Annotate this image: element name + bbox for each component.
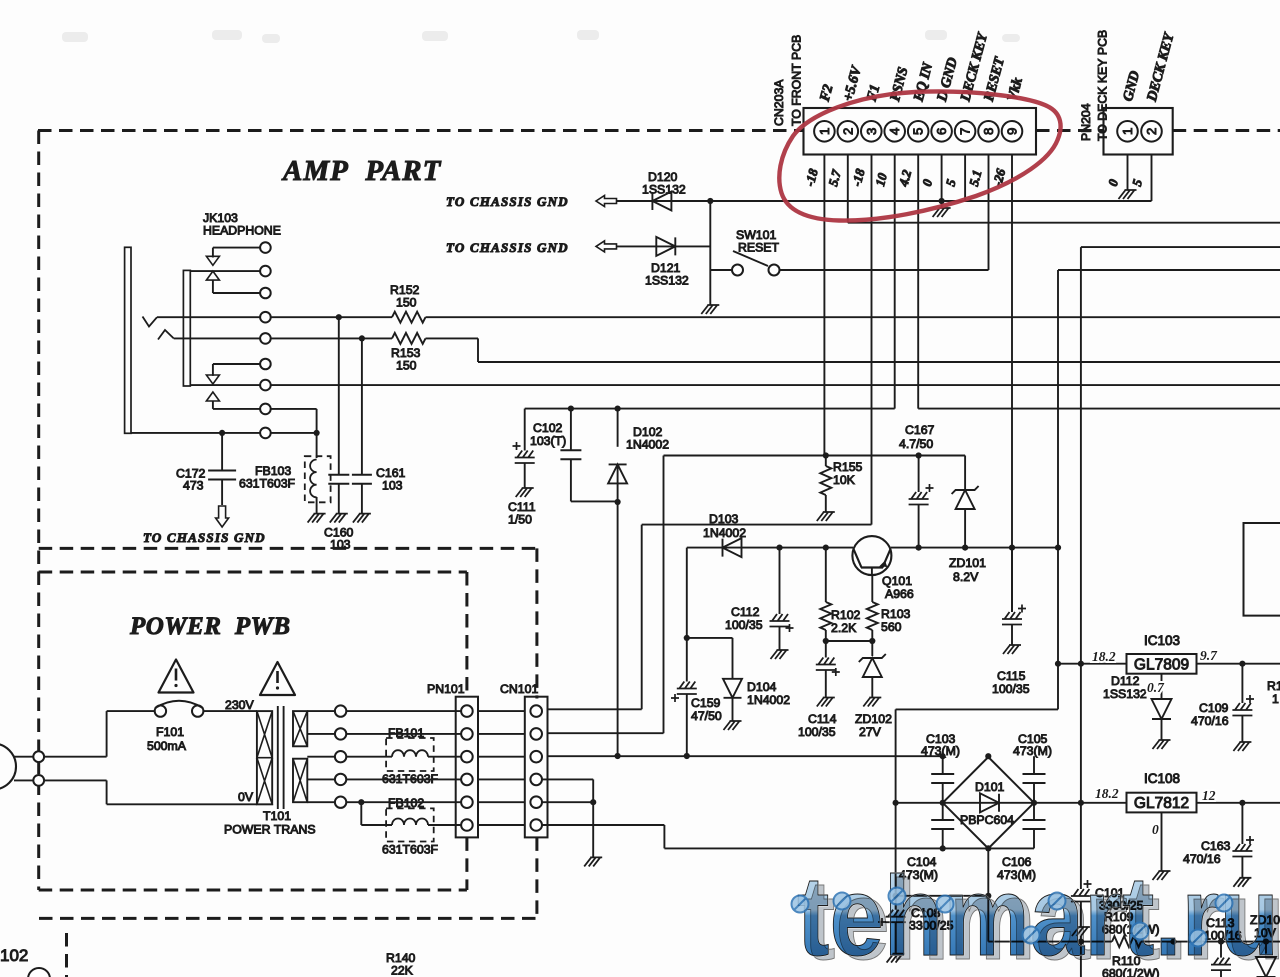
svg-text:+5.6V: +5.6V — [840, 63, 865, 103]
svg-text:473(M): 473(M) — [921, 744, 960, 758]
svg-text:D112: D112 — [1111, 674, 1140, 688]
svg-text:22K: 22K — [391, 964, 414, 977]
svg-text:F1: F1 — [863, 83, 883, 104]
svg-text:8.2V: 8.2V — [953, 570, 979, 584]
svg-text:5: 5 — [943, 177, 959, 188]
svg-text:4.7/50: 4.7/50 — [899, 437, 933, 451]
svg-text:POWER TRANS: POWER TRANS — [224, 823, 316, 837]
svg-text:ZD101: ZD101 — [949, 556, 986, 570]
svg-text:0.7: 0.7 — [1147, 680, 1165, 695]
svg-text:R1: R1 — [1267, 679, 1280, 693]
svg-text:7: 7 — [958, 128, 973, 135]
svg-text:470/16: 470/16 — [1191, 714, 1229, 728]
svg-text:CN203A: CN203A — [772, 79, 786, 126]
svg-text:F2: F2 — [817, 83, 837, 104]
svg-text:PSNS: PSNS — [887, 65, 911, 103]
svg-text:F101: F101 — [156, 725, 184, 739]
svg-text:1: 1 — [1272, 692, 1279, 706]
svg-text:A966: A966 — [885, 587, 914, 601]
svg-text:5: 5 — [911, 128, 926, 135]
svg-text:C114: C114 — [808, 712, 837, 726]
svg-text:10K: 10K — [833, 473, 856, 487]
svg-text:FB101: FB101 — [388, 726, 424, 740]
svg-text:AMP PART: AMP PART — [281, 155, 442, 187]
svg-text:18.2: 18.2 — [1095, 786, 1119, 801]
svg-text:103: 103 — [382, 479, 403, 493]
svg-text:GND: GND — [1120, 69, 1143, 103]
svg-text:TO CHASSIS GND: TO CHASSIS GND — [143, 530, 266, 545]
svg-text:Q101: Q101 — [882, 574, 912, 588]
svg-text:CN101: CN101 — [500, 682, 538, 696]
svg-text:4.2: 4.2 — [895, 168, 914, 189]
svg-text:1: 1 — [817, 128, 832, 135]
svg-text:TO FRONT PCB: TO FRONT PCB — [790, 35, 804, 126]
svg-text:FB102: FB102 — [388, 796, 424, 810]
svg-text:TO CHASSIS GND: TO CHASSIS GND — [446, 240, 569, 255]
svg-text:D104: D104 — [747, 680, 777, 694]
svg-text:9: 9 — [1005, 128, 1020, 135]
svg-text:1N4002: 1N4002 — [703, 526, 746, 540]
svg-text:3: 3 — [864, 128, 879, 135]
svg-text:R102: R102 — [831, 608, 861, 622]
svg-text:2: 2 — [1144, 128, 1159, 135]
svg-text:10: 10 — [872, 171, 890, 188]
svg-text:TO CHASSIS GND: TO CHASSIS GND — [446, 194, 569, 209]
svg-text:T101: T101 — [263, 809, 291, 823]
svg-text:D101: D101 — [975, 780, 1005, 794]
svg-text:0: 0 — [1152, 822, 1159, 837]
svg-text:0: 0 — [1105, 177, 1121, 188]
svg-text:R103: R103 — [881, 607, 911, 621]
svg-text:100/35: 100/35 — [798, 725, 836, 739]
svg-text:2.2K: 2.2K — [831, 621, 857, 635]
svg-text:150: 150 — [396, 359, 417, 373]
svg-text:2: 2 — [840, 128, 855, 135]
svg-text:473: 473 — [183, 479, 204, 493]
svg-text:5.1: 5.1 — [966, 168, 985, 188]
svg-text:ZD102: ZD102 — [855, 712, 892, 726]
svg-text:D GND: D GND — [934, 56, 961, 104]
svg-text:18.2: 18.2 — [1092, 649, 1116, 664]
svg-text:C102: C102 — [533, 421, 563, 435]
svg-text:POWER PWB: POWER PWB — [129, 613, 291, 640]
svg-text:1SS132: 1SS132 — [642, 183, 686, 197]
svg-text:230V: 230V — [225, 698, 255, 712]
svg-text:500mA: 500mA — [147, 739, 187, 753]
svg-text:C115: C115 — [997, 669, 1026, 683]
svg-text:9.7: 9.7 — [1200, 648, 1218, 663]
svg-text:C112: C112 — [731, 605, 760, 619]
svg-text:GL7809: GL7809 — [1134, 657, 1189, 674]
svg-text:-18: -18 — [802, 167, 821, 188]
svg-text:4: 4 — [887, 128, 902, 135]
svg-text:1SS132: 1SS132 — [645, 274, 689, 288]
svg-text:100/35: 100/35 — [725, 618, 763, 632]
svg-text:PBPC604: PBPC604 — [960, 813, 1014, 827]
svg-text:EQ IN: EQ IN — [910, 60, 936, 104]
svg-text:100/35: 100/35 — [992, 682, 1030, 696]
svg-text:RESET: RESET — [738, 241, 779, 255]
svg-text:102: 102 — [0, 946, 28, 965]
svg-text:HEADPHONE: HEADPHONE — [203, 224, 281, 238]
svg-text:R155: R155 — [833, 460, 863, 474]
svg-text:150: 150 — [396, 296, 417, 310]
svg-text:tehmart.ru: tehmart.ru — [797, 853, 1279, 977]
svg-text:473(M): 473(M) — [1013, 744, 1052, 758]
svg-text:IC103: IC103 — [1144, 633, 1180, 648]
svg-text:D103: D103 — [709, 512, 739, 526]
svg-text:560: 560 — [881, 620, 902, 634]
svg-text:0V: 0V — [238, 790, 254, 804]
svg-text:1SS132: 1SS132 — [1103, 687, 1147, 701]
svg-text:PN204: PN204 — [1079, 103, 1093, 141]
svg-text:PN101: PN101 — [427, 682, 465, 696]
svg-text:C163: C163 — [1201, 839, 1231, 853]
svg-text:5.7: 5.7 — [825, 168, 844, 188]
svg-text:5: 5 — [1129, 177, 1145, 188]
svg-text:47/50: 47/50 — [691, 709, 722, 723]
svg-text:DECK KEY: DECK KEY — [1144, 30, 1178, 104]
svg-text:1N4002: 1N4002 — [747, 693, 790, 707]
svg-text:-18: -18 — [849, 167, 868, 188]
svg-text:1N4002: 1N4002 — [626, 438, 669, 452]
svg-text:631T603F: 631T603F — [382, 843, 439, 857]
svg-text:631T603F: 631T603F — [239, 477, 296, 491]
svg-text:6: 6 — [934, 128, 949, 135]
svg-text:27V: 27V — [859, 725, 882, 739]
svg-text:8: 8 — [981, 128, 996, 135]
svg-text:1: 1 — [1120, 128, 1135, 135]
svg-text:TO DECK KEY PCB: TO DECK KEY PCB — [1096, 30, 1110, 141]
svg-text:12: 12 — [1202, 788, 1216, 803]
svg-text:0: 0 — [919, 177, 935, 188]
svg-text:C109: C109 — [1199, 701, 1229, 715]
svg-text:IC108: IC108 — [1144, 771, 1180, 786]
svg-text:C167: C167 — [905, 423, 935, 437]
svg-text:C159: C159 — [691, 696, 721, 710]
svg-text:103(T): 103(T) — [530, 434, 566, 448]
svg-text:103: 103 — [330, 538, 351, 552]
svg-text:GL7812: GL7812 — [1134, 795, 1189, 812]
svg-text:1/50: 1/50 — [508, 513, 532, 527]
